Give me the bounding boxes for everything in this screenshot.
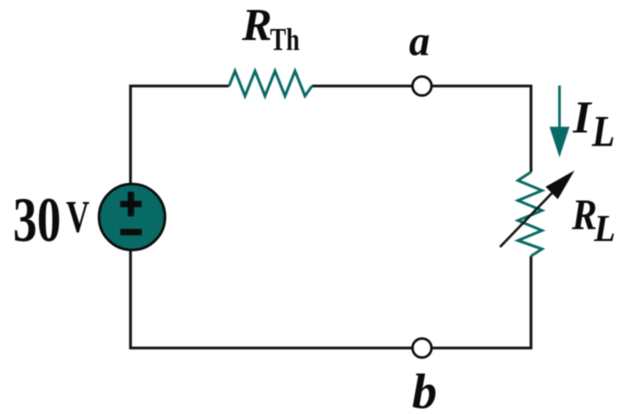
svg-text:b: b — [412, 363, 437, 414]
svg-text:L: L — [591, 107, 615, 156]
svg-text:L: L — [593, 208, 615, 250]
svg-text:V: V — [66, 191, 90, 242]
svg-text:Th: Th — [270, 21, 300, 57]
svg-text:a: a — [409, 19, 430, 65]
svg-text:I: I — [572, 92, 593, 143]
svg-text:R: R — [241, 0, 272, 50]
svg-text:30: 30 — [13, 184, 61, 255]
